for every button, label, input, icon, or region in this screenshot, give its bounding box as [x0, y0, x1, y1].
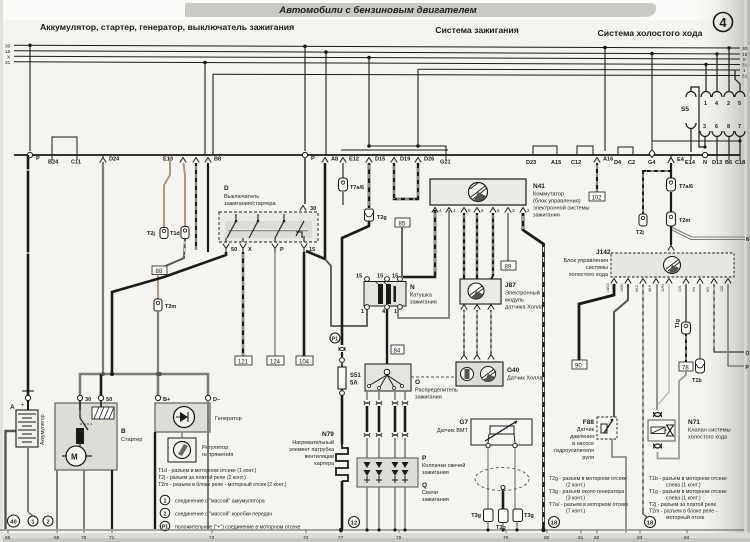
svg-text:82: 82: [594, 535, 600, 541]
ticks D23 A15 C12: [533, 146, 557, 155]
svg-text:Автомобили с бензиновым двигат: Автомобили с бензиновым двигателем: [278, 5, 476, 16]
svg-text:Колпачки свечей: Колпачки свечей: [422, 462, 465, 469]
wire A16 to 102 box: [596, 163, 598, 192]
distributor O: [365, 364, 411, 391]
terminal circles: [25, 395, 30, 400]
legend blocks: [158, 468, 287, 488]
switch D box: [219, 212, 318, 242]
svg-text:модуль: модуль: [505, 298, 524, 304]
ticks D13 B6 C18: [716, 155, 718, 160]
connector mark on S51 wire: [339, 347, 345, 351]
svg-text:1: 1: [704, 101, 707, 107]
svg-text:73: 73: [303, 535, 309, 541]
wire U loop to N71 bottom: [658, 371, 687, 459]
svg-text:N: N: [410, 284, 415, 291]
J142 control unit: [611, 253, 734, 277]
svg-text:D26: D26: [424, 157, 434, 163]
svg-text:T3g - разъем около генератора: T3g - разъем около генератора: [549, 489, 624, 495]
svg-text:J142: J142: [596, 249, 611, 256]
svg-text:зажигания: зажигания: [415, 395, 442, 401]
svg-text:T2m: T2m: [165, 304, 176, 310]
svg-text:18: 18: [551, 521, 558, 527]
svg-text:81: 81: [578, 535, 584, 541]
wire pin2 to thick dashed ground column: [523, 213, 544, 529]
box 88: [152, 266, 167, 275]
svg-text:2: 2: [527, 208, 530, 213]
connector T1d: [181, 227, 189, 239]
svg-text:G40: G40: [507, 367, 520, 374]
svg-text:Стартер: Стартер: [121, 437, 142, 443]
svg-text:5A: 5A: [350, 381, 358, 387]
ground wires under starter: [56, 470, 58, 529]
coil wires: [403, 210, 435, 277]
svg-text:(7 конт.): (7 конт.): [566, 509, 585, 515]
svg-text:1: 1: [361, 309, 364, 315]
J142 wires down: [614, 284, 628, 417]
node G4 diamond: [649, 150, 655, 158]
svg-text:T7a/6: T7a/6: [350, 185, 364, 191]
svg-text:Регулятор: Регулятор: [202, 445, 228, 451]
svg-text:T7a/ - разъем в моторном отсек: T7a/ - разъем в моторном отсеке: [549, 502, 628, 508]
svg-text:15/30: 15/30: [620, 283, 624, 292]
connector T2j left: [160, 228, 168, 239]
bus labels left: [5, 44, 11, 67]
wire switch X to 121: [242, 252, 244, 356]
tick E14: [690, 155, 692, 160]
svg-text:D15: D15: [375, 157, 385, 163]
svg-text:T2g - разъем в моторном отсек: T2g - разъем в моторном отсеке: [549, 476, 627, 482]
ignition coil N: [365, 277, 370, 282]
svg-text:1: 1: [453, 208, 456, 213]
T3g connectors: [484, 509, 494, 522]
svg-text:Коммутатор: Коммутатор: [533, 192, 564, 198]
fuse 1: [700, 48, 745, 155]
svg-text:J87: J87: [505, 282, 516, 289]
svg-text:слева (1 конт.): слева (1 конт.): [666, 496, 701, 502]
svg-text:G7: G7: [459, 419, 468, 426]
svg-text:P: P: [422, 455, 427, 462]
svg-text:3: 3: [512, 208, 515, 213]
svg-text:12: 12: [351, 521, 357, 527]
svg-text:4/19: 4/19: [648, 285, 652, 292]
svg-text:напряжения: напряжения: [202, 452, 233, 458]
page number circle: [714, 13, 733, 32]
svg-text:69: 69: [54, 535, 60, 541]
svg-text:12/1: 12/1: [720, 285, 724, 292]
svg-text:слева (1 конт.): слева (1 конт.): [666, 483, 701, 489]
svg-text:T1g - разъем в моторном отсек: T1g - разъем в моторном отсеке: [649, 489, 727, 495]
svg-text:зажигания: зажигания: [410, 300, 437, 306]
switch terminals bottom: [223, 244, 307, 253]
N41 pins: [432, 208, 526, 213]
terminal D24: [100, 158, 106, 163]
wires to T3g: [487, 448, 489, 509]
wire P node to switch 30: [304, 157, 306, 204]
svg-text:18: 18: [647, 521, 654, 527]
ground circles bottom left: [28, 512, 33, 516]
svg-text:холостого хода: холостого хода: [688, 435, 728, 441]
wire D19-D26 jumper: [394, 163, 418, 199]
tick G21: [445, 155, 447, 160]
svg-text:T2j - разъем за платой реле: T2j - разъем за платой реле (2 конт.): [158, 474, 246, 481]
svg-text:зажигания: зажигания: [533, 213, 560, 219]
svg-text:10/1: 10/1: [678, 285, 682, 292]
verticals bus->rail: [30, 45, 652, 155]
svg-text:N71: N71: [688, 419, 700, 426]
svg-text:датчика Холла: датчика Холла: [505, 305, 544, 311]
svg-text:N79: N79: [322, 431, 334, 438]
svg-text:D4: D4: [614, 160, 622, 166]
hall module J87: [460, 279, 501, 304]
svg-text:Датчик: Датчик: [577, 427, 595, 433]
svg-text:T2m - разъем в блоке реле -: T2m - разъем в блоке реле -: [649, 509, 718, 515]
terminal A16: [594, 158, 600, 163]
wire switch 15 to 104: [303, 252, 306, 356]
terminal E12: [340, 158, 346, 163]
svg-text:1: 1: [164, 499, 167, 505]
svg-text:T1g: T1g: [675, 319, 681, 328]
svg-text:B24: B24: [48, 160, 59, 166]
bracket D4 C2: [618, 147, 633, 155]
svg-text:O: O: [415, 379, 420, 386]
svg-text:68: 68: [5, 535, 11, 541]
svg-text:N: N: [746, 237, 750, 243]
svg-text:вентиляции: вентиляции: [305, 454, 334, 460]
svg-text:1: 1: [743, 68, 746, 74]
svg-text:F88: F88: [583, 419, 595, 426]
svg-text:C2: C2: [628, 160, 635, 166]
svg-text:Система холостого хода: Система холостого хода: [598, 28, 703, 38]
svg-text:T2g: T2g: [377, 215, 387, 221]
svg-text:84: 84: [394, 349, 401, 355]
HT leads to plugs: [367, 391, 405, 400]
J87 to G40 wires: [461, 305, 494, 310]
rail terminal symbols + labels: [27, 137, 740, 163]
bus lines: [14, 45, 740, 75]
svg-text:A15: A15: [551, 160, 561, 166]
svg-text:77: 77: [338, 535, 344, 541]
svg-text:T1b - разъем в моторном отсек: T1b - разъем в моторном отсеке: [649, 476, 727, 482]
svg-text:E4: E4: [677, 157, 685, 163]
wire G4 to fuse7 column: [652, 140, 740, 142]
svg-text:80: 80: [544, 535, 550, 541]
svg-text:2: 2: [46, 520, 49, 526]
starter coil: [76, 428, 84, 444]
svg-text:11/91: 11/91: [661, 284, 665, 292]
J142 pin1 thick to box 90: [579, 284, 614, 360]
box 124: [267, 356, 284, 365]
svg-text:6: 6: [481, 208, 484, 213]
wire pin3 to box 89: [507, 213, 509, 261]
svg-text:89: 89: [505, 265, 512, 271]
svg-text:T1d: T1d: [170, 231, 180, 237]
svg-text:N: N: [703, 160, 707, 166]
svg-text:N41: N41: [533, 183, 545, 190]
terminal D15: [366, 158, 372, 163]
svg-text:гидроусилителя: гидроусилителя: [554, 448, 594, 454]
left edge dark sliver: [0, 0, 3, 542]
wire rail P down to battery: [27, 155, 30, 396]
fuse 2: [724, 92, 734, 98]
svg-text:E14: E14: [685, 160, 696, 166]
svg-text:104: 104: [299, 360, 310, 366]
wire E12 with T7a/6 connector: [342, 163, 344, 178]
svg-text:5: 5: [738, 101, 741, 107]
generator box: [155, 403, 210, 432]
wire switch P to 124: [274, 252, 276, 356]
svg-text:C11: C11: [71, 160, 81, 166]
terminal E4: [668, 158, 674, 164]
svg-text:D23: D23: [526, 160, 536, 166]
starter B box: [55, 403, 117, 470]
svg-text:S5: S5: [681, 106, 689, 113]
main rail: [14, 154, 740, 156]
svg-text:Свечи: Свечи: [422, 490, 438, 496]
svg-text:Датчик Холла: Датчик Холла: [507, 376, 544, 382]
svg-text:85: 85: [399, 222, 406, 228]
svg-text:C12: C12: [571, 160, 581, 166]
svg-text:30: 30: [742, 46, 748, 52]
wire battery minus strap to far-left ground run: [6, 431, 17, 529]
switch terminal 30 top: [300, 206, 306, 211]
svg-text:X: X: [248, 247, 252, 253]
wire T2m down to bus: [157, 311, 159, 374]
bottom track ruler: [0, 529, 744, 531]
svg-text:72: 72: [209, 535, 215, 541]
svg-text:Выключатель: Выключатель: [224, 194, 259, 200]
svg-text:моторный отсек: моторный отсек: [666, 514, 705, 521]
svg-text:соединение с "массой" аккумуля: соединение с "массой" аккумулятора: [175, 498, 265, 505]
svg-text:D19: D19: [400, 157, 410, 163]
svg-text:Аккумулятор, стартер, генерато: Аккумулятор, стартер, генератор, выключа…: [40, 22, 294, 32]
node P center: [302, 152, 307, 157]
svg-text:2/4: 2/4: [692, 287, 696, 292]
svg-text:давления: давления: [570, 434, 594, 440]
svg-text:5/12: 5/12: [635, 285, 639, 292]
svg-text:Электронный: Электронный: [505, 290, 540, 297]
svg-text:8: 8: [743, 57, 746, 63]
svg-text:Нагревательный: Нагревательный: [292, 439, 334, 446]
J142 pins: [611, 279, 731, 284]
svg-text:соединение с "массой" коробки: соединение с "массой" коробки передач: [175, 511, 272, 518]
svg-text:30: 30: [310, 206, 316, 212]
svg-text:P: P: [36, 156, 40, 162]
svg-text:8: 8: [727, 124, 730, 130]
svg-text:8: 8: [468, 208, 471, 213]
svg-text:B8: B8: [214, 157, 221, 163]
svg-text:картера: картера: [314, 461, 334, 467]
svg-text:(2 конт.): (2 конт.): [566, 483, 585, 489]
svg-text:системы: системы: [586, 265, 608, 271]
svg-text:T1b: T1b: [692, 378, 702, 384]
svg-text:2: 2: [164, 512, 167, 518]
svg-text:Распределитель: Распределитель: [415, 388, 458, 394]
svg-text:121: 121: [238, 360, 249, 366]
svg-text:70: 70: [81, 535, 87, 541]
dashed link distributor to G40: [411, 376, 456, 378]
terminal group E13: [180, 158, 186, 163]
svg-text:P: P: [311, 156, 315, 162]
N41 box: [430, 179, 526, 205]
svg-text:T2m: T2m: [679, 218, 690, 224]
svg-text:Q: Q: [422, 482, 427, 489]
fuse S5: [686, 87, 705, 152]
starter motor M: [66, 446, 86, 466]
bus labels right: [742, 46, 748, 80]
wire B8 column dashed: [195, 163, 197, 250]
svg-text:B6: B6: [725, 160, 732, 166]
svg-text:O: O: [746, 351, 750, 357]
box 78: [679, 362, 693, 371]
svg-text:Датчик ВМТ: Датчик ВМТ: [437, 428, 469, 434]
svg-text:T7a/6: T7a/6: [679, 184, 693, 190]
svg-text:A16: A16: [603, 157, 613, 163]
terminal A8: [322, 158, 328, 163]
svg-text:50: 50: [231, 247, 237, 253]
svg-text:T2m - разъем в блоке реле - мо: T2m - разъем в блоке реле - моторный отс…: [158, 481, 287, 488]
svg-text:A: A: [10, 404, 15, 411]
svg-text:5: 5: [497, 208, 500, 213]
svg-text:6/3: 6/3: [706, 287, 710, 292]
svg-text:B: B: [121, 428, 126, 435]
svg-text:P1: P1: [332, 337, 338, 343]
svg-text:B+: B+: [163, 397, 171, 403]
battery minus down: [27, 447, 29, 512]
wire T1d down to box 88: [161, 239, 185, 269]
connector T2m: [154, 299, 162, 311]
svg-text:D24: D24: [109, 157, 120, 163]
svg-text:руля: руля: [582, 455, 594, 461]
svg-text:T3g: T3g: [524, 513, 534, 519]
svg-text:G21: G21: [440, 160, 451, 166]
svg-text:1: 1: [394, 309, 397, 315]
svg-text:T2j - разъем за платой реле: T2j - разъем за платой реле: [649, 501, 716, 508]
svg-text:+: +: [21, 403, 25, 409]
wire E13 to T2j: [164, 157, 170, 227]
wire T2g diagonal to S51 chain: [342, 221, 369, 345]
svg-text:78: 78: [682, 366, 689, 372]
heater element N79: [336, 444, 348, 481]
svg-text:в насосе: в насосе: [572, 441, 594, 447]
svg-text:90: 90: [575, 364, 582, 370]
svg-text:30: 30: [5, 44, 11, 50]
regulator box: [168, 438, 196, 462]
wire 88 to T2m: [157, 275, 159, 300]
svg-text:зажигания: зажигания: [422, 497, 449, 503]
fuse 6: [712, 131, 722, 137]
ground 18 left: [549, 517, 560, 528]
svg-text:102: 102: [592, 196, 603, 202]
wire E4 down with T7a/6 and T2m: [670, 163, 672, 178]
svg-text:124: 124: [270, 360, 281, 366]
svg-text:61: 61: [742, 74, 748, 80]
node P left: [27, 152, 32, 157]
fuse 3: [700, 131, 710, 137]
svg-text:зажигания: зажигания: [422, 470, 449, 476]
svg-text:элемент патрубка: элемент патрубка: [289, 447, 334, 453]
svg-text:Система зажигания: Система зажигания: [435, 25, 519, 35]
box 85: [395, 218, 410, 227]
svg-text:4: 4: [719, 15, 727, 30]
svg-text:30: 30: [85, 397, 91, 403]
svg-text:S51: S51: [350, 373, 361, 379]
svg-text:T1d - разъем в моторном отсек: T1d - разъем в моторном отсеке (1 конт.): [158, 468, 257, 474]
spark plug caps P + plugs Q block: [357, 458, 418, 487]
svg-text:Клапан системы: Клапан системы: [688, 428, 731, 434]
terminal D26: [415, 158, 421, 163]
box 84: [391, 345, 404, 354]
wire arrow 183 to T1d: [184, 163, 186, 226]
svg-text:T3g: T3g: [471, 513, 481, 519]
connector T2g: [365, 209, 374, 221]
svg-text:(3 конт.): (3 конт.): [566, 496, 585, 502]
G40 hall sender: [456, 362, 503, 386]
svg-text:(блок управления): (блок управления): [533, 199, 581, 205]
svg-text:84: 84: [684, 535, 690, 541]
svg-text:E13: E13: [163, 157, 173, 163]
svg-text:15: 15: [5, 49, 11, 55]
svg-text:7: 7: [738, 124, 741, 130]
node N: [702, 152, 707, 157]
svg-text:15: 15: [392, 274, 398, 280]
fuse S51: [338, 367, 346, 389]
svg-text:электронной системы: электронной системы: [533, 205, 590, 212]
svg-text:2: 2: [727, 101, 730, 107]
svg-text:50: 50: [106, 397, 112, 403]
connector T1b on wire 700: [696, 359, 705, 373]
valve N71: [659, 284, 670, 404]
svg-text:G4: G4: [648, 160, 656, 166]
svg-text:холостого хода: холостого хода: [569, 272, 609, 278]
node P1 circle: [330, 333, 340, 343]
svg-text:3: 3: [703, 124, 706, 130]
svg-text:83: 83: [637, 535, 643, 541]
ground 18 right: [643, 514, 647, 517]
svg-text:Генератор: Генератор: [215, 416, 242, 422]
fuse 7: [735, 131, 745, 137]
box 121: [235, 356, 252, 365]
svg-text:T2j: T2j: [636, 230, 644, 236]
svg-text:15: 15: [377, 274, 383, 280]
wire D24 down: [102, 162, 104, 374]
svg-text:E12: E12: [349, 157, 359, 163]
svg-text:C18: C18: [735, 160, 745, 166]
svg-text:Катушка: Катушка: [410, 293, 433, 299]
box 104: [296, 356, 313, 365]
svg-text:Блок управления: Блок управления: [563, 258, 608, 264]
fuse 8: [724, 131, 734, 137]
svg-text:78: 78: [396, 535, 402, 541]
svg-text:40: 40: [10, 520, 16, 526]
node B24 C11 bracket: [52, 137, 77, 155]
terminal D19: [391, 158, 397, 163]
fuse 5: [735, 92, 745, 98]
svg-text:Аккумулятор: Аккумулятор: [40, 414, 46, 445]
header grey bar: [185, 3, 656, 17]
wire switch 50 diagonal: [112, 252, 226, 374]
starter relay winding hatched: [92, 407, 114, 419]
connector T1g on wire 686: [682, 322, 691, 334]
svg-text:D–: D–: [213, 397, 220, 403]
wire A8 down joins switch 15: [324, 163, 327, 259]
svg-text:15: 15: [356, 274, 362, 280]
svg-text:зажигания/стартера: зажигания/стартера: [224, 201, 276, 207]
svg-text:31: 31: [5, 60, 11, 66]
svg-text:6: 6: [715, 124, 718, 130]
wire T2j branch: [643, 171, 671, 214]
svg-text:14/15: 14/15: [606, 283, 610, 292]
ground 12: [349, 517, 360, 528]
